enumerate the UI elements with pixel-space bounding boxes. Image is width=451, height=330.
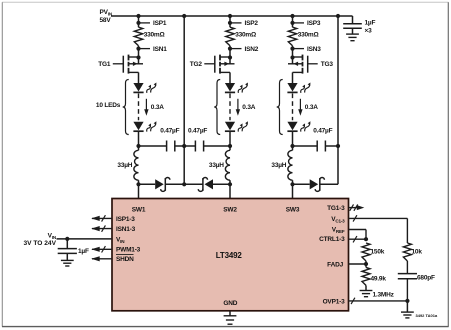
svg-text:3V TO 24V: 3V TO 24V	[24, 240, 57, 247]
pin VREF	[332, 227, 345, 235]
ground (49.9k)	[360, 285, 373, 296]
svg-text:×3: ×3	[365, 27, 373, 34]
wire railA vertical	[183, 16, 185, 184]
wire LED cathode to cap node ch2	[229, 131, 231, 146]
svg-text:0.3A: 0.3A	[305, 104, 318, 111]
wire LED cathode to cap node ch1	[138, 131, 140, 146]
wire dashed LED string continuation ch2	[229, 94, 231, 121]
node ISN3	[290, 46, 321, 53]
svg-text:58V: 58V	[100, 17, 112, 24]
transistor M1 PMOS (gate TG1)	[123, 49, 143, 84]
label 1.3MHz	[373, 292, 395, 299]
capacitor 1uF x3 input bypass	[343, 16, 375, 34]
svg-text:PWM1-3: PWM1-3	[116, 247, 141, 254]
junction railA/caps	[182, 144, 186, 148]
svg-text:1.3MHz: 1.3MHz	[373, 292, 395, 299]
resistor 150k	[362, 243, 385, 261]
net VIN source label	[24, 232, 57, 247]
ground (VIN cap)	[61, 260, 74, 266]
svg-text:150k: 150k	[371, 248, 385, 255]
junction PVIN/ch1	[136, 14, 140, 18]
wire VC1-3 to 10k	[349, 215, 408, 243]
LED D3a (top of string)	[287, 82, 312, 93]
pin SW3 label	[286, 206, 300, 213]
wire SW node to SW2 pin	[229, 184, 231, 198]
svg-text:TG3: TG3	[321, 61, 334, 68]
svg-text:0.47µF: 0.47µF	[313, 127, 332, 134]
LED D1b (bottom of string)	[133, 121, 158, 132]
pin VIN	[116, 236, 125, 244]
current arrow 0.3A ch3	[298, 99, 318, 116]
svg-text:ISN3: ISN3	[307, 46, 321, 53]
svg-text:3492 TA01a: 3492 TA01a	[416, 313, 438, 318]
inductor 33uH ch3	[271, 146, 292, 184]
ground (input cap)	[346, 34, 359, 41]
label TG1 gate wire	[98, 61, 123, 68]
svg-text:FADJ: FADJ	[327, 261, 343, 268]
pin ISP1-3	[91, 215, 135, 223]
junction FADJ/49.9k	[364, 262, 368, 266]
svg-text:1µF: 1µF	[365, 20, 376, 27]
inductor 33uH ch1	[117, 146, 138, 184]
junction VIN/cap	[65, 237, 69, 241]
resistor 49.9k	[362, 267, 386, 285]
svg-text:330mΩ: 330mΩ	[144, 32, 165, 39]
junction PVIN/railA	[182, 14, 186, 18]
diode D2 schottky ch2	[184, 178, 230, 192]
svg-text:33µH: 33µH	[209, 162, 224, 169]
wire OVP1-3 to ground node	[349, 298, 408, 304]
pin SW1 label	[132, 206, 146, 213]
junction cap node ch1	[136, 144, 140, 148]
wire PVIN top rail	[111, 15, 353, 17]
brace LED string ch2	[214, 80, 220, 135]
pin SW2 label	[223, 206, 237, 213]
svg-text:ISP1-3: ISP1-3	[116, 216, 135, 223]
svg-text:0.3A: 0.3A	[151, 104, 164, 111]
pin VC1-3	[331, 216, 345, 224]
label TG2 gate wire	[190, 61, 215, 68]
junction PVIN/ch2	[228, 14, 232, 18]
resistor 330mOhm ch3 sense	[288, 23, 318, 46]
svg-text:680pF: 680pF	[417, 274, 435, 281]
svg-text:ISP3: ISP3	[307, 20, 321, 27]
node ISP2	[228, 20, 258, 27]
svg-text:SW1: SW1	[132, 206, 146, 213]
pin PWM1-3	[91, 246, 140, 254]
wire LED cathode to cap node ch3	[292, 131, 294, 146]
capacitor 0.47uF ch1	[139, 127, 185, 151]
wire dashed LED string continuation ch1	[138, 94, 140, 121]
wire railB vertical	[337, 16, 339, 184]
LED D2b (bottom of string)	[225, 121, 250, 132]
wire FADJ to node	[349, 261, 367, 267]
net PVIN label	[100, 9, 113, 24]
wire SW node to SW3 pin	[292, 184, 294, 198]
node ISP3	[290, 20, 320, 27]
junction PVIN/railB	[336, 14, 340, 18]
label 3492 TA01a	[416, 313, 438, 318]
resistor 330mOhm ch2 sense	[226, 23, 256, 46]
wire GND pin	[229, 311, 231, 316]
ground (IC GND)	[224, 316, 237, 324]
junction SW node ch1	[136, 182, 140, 186]
svg-text:0.3A: 0.3A	[242, 104, 255, 111]
label TG3 gate wire	[308, 61, 334, 68]
junction SW node ch2	[228, 182, 232, 186]
svg-text:33µH: 33µH	[271, 162, 286, 169]
node ISN2	[228, 46, 259, 53]
svg-text:ISP2: ISP2	[245, 20, 259, 27]
svg-text:TG2: TG2	[190, 61, 203, 68]
junction railB/cap ch3	[336, 144, 340, 148]
wire CTRL1-3 to node	[349, 236, 367, 242]
svg-text:TG1: TG1	[98, 61, 111, 68]
svg-text:LT3492: LT3492	[216, 251, 243, 260]
pin ISN1-3	[91, 225, 135, 233]
resistor 10k	[403, 243, 422, 261]
current arrow 0.3A ch2	[236, 99, 256, 116]
junction cap node ch3	[290, 144, 294, 148]
svg-text:0.47µF: 0.47µF	[188, 127, 207, 134]
ground (OVP node)	[401, 301, 414, 318]
brace LED string ch3	[277, 80, 283, 135]
brace LED string ch1	[123, 80, 129, 135]
junction OVP/680pF/ground	[405, 299, 409, 303]
inductor 33uH ch2	[209, 146, 230, 184]
svg-text:ISN1: ISN1	[153, 46, 167, 53]
svg-text:SHDN: SHDN	[116, 256, 134, 263]
svg-text:ISN2: ISN2	[245, 46, 259, 53]
svg-text:330mΩ: 330mΩ	[298, 32, 319, 39]
pin GND label	[223, 300, 237, 307]
svg-text:0.47µF: 0.47µF	[160, 127, 179, 134]
capacitor 0.47uF ch3	[293, 127, 339, 151]
junction VREF/CTRL/150k	[364, 237, 368, 241]
wire ch1 vertical from rail to ISP	[138, 16, 140, 23]
wire ch2 vertical from rail to ISP	[229, 16, 231, 23]
resistor 330mOhm ch1 sense	[134, 23, 164, 46]
capacitor 0.47uF ch2	[184, 127, 230, 151]
diode D3 schottky ch3	[293, 178, 339, 192]
LED D3b (bottom of string)	[287, 121, 312, 132]
svg-text:OVP1-3: OVP1-3	[323, 299, 346, 306]
pin CTRL1-3	[319, 236, 345, 243]
wire ch3 vertical from rail to ISP	[292, 16, 294, 23]
svg-text:ISN1-3: ISN1-3	[116, 226, 136, 233]
svg-text:ISP1: ISP1	[153, 20, 167, 27]
capacitor 1uF VIN bypass	[58, 239, 89, 260]
current arrow 0.3A ch1	[144, 99, 164, 116]
pin SHDN (active low)	[91, 255, 134, 264]
junction cap node ch2	[228, 144, 232, 148]
LED D2a (top of string)	[225, 82, 250, 93]
capacitor 680pF	[398, 261, 435, 301]
wire SW node to SW1 pin	[138, 184, 140, 198]
wire VREF to CTRL node	[349, 230, 367, 240]
svg-text:10 LEDs: 10 LEDs	[96, 102, 121, 109]
svg-text:SW3: SW3	[286, 206, 300, 213]
node ISP1	[136, 20, 166, 27]
wire dashed LED string continuation ch3	[292, 94, 294, 121]
transistor M3 PMOS (gate TG3)	[288, 49, 308, 84]
svg-text:SW2: SW2	[223, 206, 237, 213]
svg-text:33µH: 33µH	[117, 162, 132, 169]
svg-text:49.9k: 49.9k	[371, 275, 387, 282]
svg-text:CTRL1-3: CTRL1-3	[319, 236, 345, 243]
junction PVIN/ch3	[290, 14, 294, 18]
label 10 LEDs	[96, 102, 121, 109]
pin TG1-3	[327, 204, 364, 212]
LED D1a (top of string)	[133, 82, 158, 93]
op-amp U1 LT3492 IC body	[112, 199, 349, 311]
junction SW node ch3	[290, 182, 294, 186]
svg-text:TG1-3: TG1-3	[327, 205, 345, 212]
svg-text:GND: GND	[223, 300, 237, 307]
svg-text:1µF: 1µF	[78, 248, 89, 255]
pin OVP1-3	[323, 299, 346, 306]
svg-text:330mΩ: 330mΩ	[235, 32, 256, 39]
diode D1 schottky ch1	[139, 178, 185, 192]
node ISN1	[136, 46, 167, 53]
pin FADJ	[327, 261, 343, 268]
wire VIN source to pin	[57, 238, 113, 240]
svg-text:10k: 10k	[412, 248, 423, 255]
transistor M2 PMOS (gate TG2)	[215, 49, 235, 84]
junction railA/diodes	[182, 182, 186, 186]
